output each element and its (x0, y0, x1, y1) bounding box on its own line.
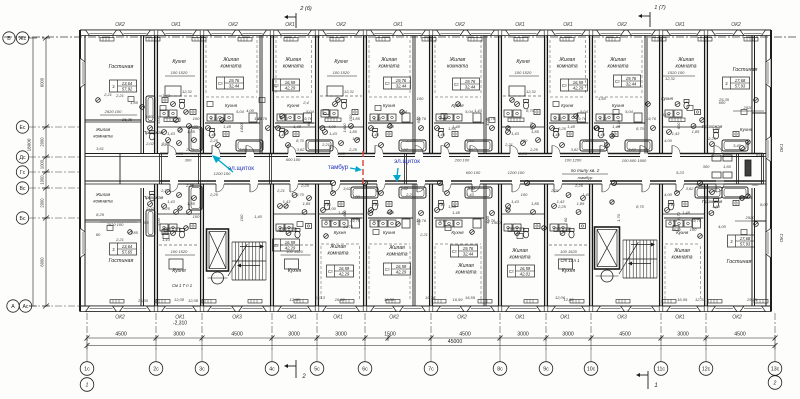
wall pier (704, 30, 708, 36)
svg-text:4500: 4500 (459, 332, 471, 338)
landing circle (601, 270, 613, 282)
corridor wall symbols (330, 180, 335, 185)
room area box (110, 243, 137, 255)
svg-text:1,70: 1,70 (616, 119, 621, 128)
wall axis x=317 (315, 36, 317, 154)
window (552, 306, 586, 312)
svg-text:2,21: 2,21 (103, 92, 112, 97)
svg-text:16,59: 16,59 (677, 297, 688, 302)
svg-text:25,35: 25,35 (718, 97, 730, 102)
left dim line 18000 (32, 38, 34, 306)
svg-text:1,43: 1,43 (466, 138, 475, 143)
svg-text:3,62: 3,62 (400, 147, 409, 152)
svg-text:комната: комната (447, 64, 468, 70)
svg-text:Жилая: Жилая (673, 248, 690, 254)
svg-text:16,59: 16,59 (285, 80, 296, 85)
room area box (217, 77, 244, 89)
wall axis x=661 (659, 36, 661, 154)
svg-text:32,44: 32,44 (229, 84, 240, 89)
svg-text:5с: 5с (314, 367, 320, 373)
svg-text:1200 100: 1200 100 (508, 170, 525, 175)
svg-text:6,70: 6,70 (439, 116, 448, 121)
svg-text:11с: 11с (657, 367, 665, 373)
corner apt right fixtures (722, 140, 748, 151)
svg-text:300: 300 (703, 164, 710, 169)
bottom axis circles (86, 346, 88, 363)
svg-text:300: 300 (185, 158, 192, 163)
svg-text:12,08: 12,08 (563, 297, 574, 302)
svg-text:600: 600 (416, 218, 421, 225)
svg-text:4500: 4500 (734, 332, 746, 338)
svg-text:Прихожая: Прихожая (143, 195, 164, 200)
svg-text:ОК1: ОК1 (779, 143, 784, 152)
svg-text:Гостиная: Гостиная (733, 67, 758, 73)
wall axis x=431 (429, 36, 431, 154)
svg-text:25,35: 25,35 (746, 297, 758, 302)
svg-text:5,04: 5,04 (465, 109, 474, 114)
red dashed line (362, 151, 364, 186)
room area box (723, 77, 750, 89)
svg-text:6,70: 6,70 (373, 116, 382, 121)
window (239, 30, 267, 36)
svg-text:6с: 6с (362, 367, 368, 373)
room area box (273, 239, 300, 251)
svg-text:42,29: 42,29 (339, 272, 350, 277)
svg-text:комната: комната (221, 64, 242, 70)
svg-text:8с: 8с (497, 367, 503, 373)
wall pier (704, 306, 708, 312)
outer wall right (770, 30, 772, 312)
room area box (327, 265, 354, 277)
svg-text:2,83: 2,83 (518, 151, 528, 156)
svg-text:16,59: 16,59 (285, 240, 296, 245)
svg-text:2,25: 2,25 (161, 206, 171, 211)
svg-text:комната: комната (387, 252, 408, 258)
svg-text:ОК2: ОК2 (732, 315, 742, 321)
partition wall (483, 184, 485, 306)
stair treads (232, 241, 266, 243)
svg-text:4,00: 4,00 (485, 117, 490, 126)
window (86, 306, 117, 312)
room area box (110, 80, 137, 92)
wall axis x=156 (154, 36, 156, 154)
window (162, 306, 197, 312)
corridor bottom wall (160, 180, 170, 182)
hall partitions lower (158, 213, 200, 215)
svg-text:100 1520: 100 1520 (560, 249, 577, 254)
window (120, 30, 151, 36)
svg-text:Ст: Ст (218, 81, 223, 86)
svg-text:Прихожая: Прихожая (143, 130, 164, 135)
svg-text:100: 100 (417, 96, 424, 101)
svg-text:Кухня: Кухня (516, 59, 530, 65)
svg-text:3000: 3000 (288, 332, 300, 338)
svg-text:2,21: 2,21 (405, 138, 414, 143)
svg-text:12,31: 12,31 (182, 89, 192, 94)
wall pier (154, 306, 158, 312)
corner apt left fixtures (146, 96, 155, 122)
svg-text:17,68: 17,68 (735, 78, 746, 83)
partition wall (259, 36, 261, 154)
svg-text:2,21: 2,21 (550, 188, 559, 193)
svg-text:3,62: 3,62 (468, 147, 477, 152)
svg-text:5,04: 5,04 (306, 109, 315, 114)
svg-text:1,85: 1,85 (531, 201, 540, 206)
svg-text:1,43: 1,43 (167, 131, 176, 136)
svg-text:3,62: 3,62 (571, 147, 580, 152)
corner apt left walls (140, 36, 142, 154)
wall pier (498, 30, 502, 36)
svg-text:12,33: 12,33 (695, 297, 706, 302)
svg-text:1,40: 1,40 (582, 138, 591, 143)
svg-text:комната: комната (283, 64, 304, 70)
wall axis x=591 (589, 36, 591, 154)
svg-text:19,76: 19,76 (626, 76, 637, 81)
stair treads (623, 239, 657, 241)
svg-text:Кухня: Кухня (287, 103, 300, 108)
corridor stub walls (159, 154, 161, 185)
svg-text:ОК1: ОК1 (779, 233, 784, 242)
wall pier (544, 306, 548, 312)
svg-text:100 600 1900: 100 600 1900 (622, 158, 647, 163)
svg-text:8,29: 8,29 (96, 212, 105, 217)
svg-text:2,25: 2,25 (209, 138, 219, 143)
wall pier (429, 30, 433, 36)
svg-text:Гс: Гс (20, 170, 26, 176)
svg-text:6,70: 6,70 (373, 218, 382, 223)
svg-text:12,06: 12,06 (555, 295, 566, 300)
svg-text:1520: 1520 (672, 227, 682, 232)
svg-text:Б: Б (7, 36, 11, 42)
svg-text:3000: 3000 (173, 332, 185, 338)
svg-text:Жилая: Жилая (558, 57, 575, 63)
svg-text:3,00: 3,00 (156, 217, 161, 226)
svg-text:4,00: 4,00 (664, 192, 673, 197)
svg-text:1,43: 1,43 (511, 131, 520, 136)
svg-text:1,43: 1,43 (283, 199, 292, 204)
svg-text:3,61: 3,61 (96, 146, 104, 151)
room area box (453, 78, 480, 90)
side window (766, 58, 771, 88)
svg-text:12,08: 12,08 (188, 298, 199, 303)
svg-text:ОК1: ОК1 (333, 315, 343, 321)
svg-text:-2,310: -2,310 (173, 321, 187, 327)
svg-text:100 1200: 100 1200 (565, 158, 582, 163)
window (712, 30, 738, 36)
svg-text:16,59: 16,59 (573, 80, 584, 85)
side window (80, 58, 85, 88)
svg-text:1,40: 1,40 (437, 132, 446, 137)
svg-text:ОК1: ОК1 (563, 22, 573, 28)
svg-text:57,93: 57,93 (740, 242, 751, 247)
svg-text:2,25: 2,25 (185, 147, 195, 152)
svg-text:тамбур: тамбур (328, 164, 349, 171)
window (278, 306, 312, 312)
svg-text:2,25: 2,25 (707, 188, 717, 193)
svg-text:3с: 3с (199, 367, 205, 373)
svg-text:1,85: 1,85 (130, 100, 139, 105)
svg-text:4,00: 4,00 (328, 124, 337, 129)
svg-text:2,25: 2,25 (557, 204, 567, 209)
svg-text:18000: 18000 (27, 138, 32, 151)
svg-text:комната: комната (510, 255, 531, 261)
room area box (508, 265, 535, 277)
svg-text:1,85: 1,85 (577, 201, 586, 206)
svg-text:42,29: 42,29 (285, 86, 296, 91)
bottom dims row2 45000 (87, 345, 775, 347)
svg-text:4,00: 4,00 (328, 206, 337, 211)
svg-text:Жилая: Жилая (95, 192, 111, 197)
svg-text:100: 100 (239, 214, 244, 221)
outer wall left (79, 30, 81, 312)
svg-text:16,59: 16,59 (520, 266, 531, 271)
svg-text:2,02: 2,02 (145, 141, 155, 146)
svg-text:5,04: 5,04 (399, 109, 408, 114)
svg-text:эл.щиток: эл.щиток (394, 158, 420, 165)
svg-text:12,13: 12,13 (315, 295, 326, 300)
side window (766, 136, 771, 162)
svg-text:ОК1: ОК1 (560, 315, 570, 321)
window (400, 306, 426, 312)
svg-text:16,59: 16,59 (384, 297, 395, 302)
svg-text:2,21: 2,21 (419, 232, 428, 237)
axis circle 2 (768, 376, 782, 390)
wall pier (589, 30, 593, 36)
lower module 661-706 (665, 243, 700, 245)
svg-text:2000: 2000 (40, 198, 45, 208)
svg-text:1,48: 1,48 (682, 210, 691, 215)
svg-text:4,00: 4,00 (246, 108, 255, 113)
window (597, 306, 625, 312)
svg-text:Жилая: Жилая (222, 57, 239, 63)
svg-text:7с: 7с (428, 367, 434, 373)
window (400, 30, 426, 36)
partition wall (412, 184, 414, 306)
svg-text:1с: 1с (84, 367, 90, 373)
svg-text:6,70: 6,70 (325, 218, 334, 223)
svg-text:300: 300 (752, 182, 759, 187)
svg-text:Жилая: Жилая (609, 57, 626, 63)
svg-text:5,23: 5,23 (676, 170, 685, 175)
wall pier (659, 30, 663, 36)
svg-text:45000: 45000 (448, 339, 463, 345)
window (437, 30, 465, 36)
svg-text:3,62: 3,62 (239, 147, 248, 152)
svg-text:2,21: 2,21 (321, 142, 330, 147)
svg-text:1400: 1400 (342, 123, 347, 133)
left dim line detail (45, 38, 47, 306)
svg-text:6,70: 6,70 (280, 116, 289, 121)
svg-text:1,70: 1,70 (616, 213, 621, 222)
svg-text:12,08: 12,08 (174, 297, 185, 302)
bathtub vertical upper (189, 127, 202, 151)
svg-text:57,65: 57,65 (122, 250, 133, 255)
svg-text:16,59: 16,59 (335, 297, 346, 302)
svg-text:комната: комната (557, 64, 578, 70)
svg-text:25,35: 25,35 (121, 117, 133, 122)
svg-text:2,25: 2,25 (348, 147, 358, 152)
svg-text:Ст: Ст (509, 269, 514, 274)
bottom dims row1 (87, 337, 775, 339)
svg-text:600: 600 (676, 122, 681, 129)
svg-text:1,60: 1,60 (352, 194, 361, 199)
svg-text:ОК2: ОК2 (457, 315, 467, 321)
svg-text:3,62: 3,62 (400, 186, 409, 191)
svg-text:тамбур: тамбур (578, 175, 593, 180)
partition wall (412, 36, 414, 154)
svg-text:100: 100 (690, 227, 697, 232)
svg-text:комната: комната (676, 64, 697, 70)
window (371, 306, 397, 312)
svg-text:2000: 2000 (40, 137, 45, 147)
svg-text:Кухня: Кухня (383, 103, 396, 108)
svg-text:6000: 6000 (40, 77, 45, 87)
window (278, 30, 312, 36)
svg-text:1: 1 (654, 383, 657, 389)
svg-text:1,48: 1,48 (452, 210, 461, 215)
svg-text:ОК1: ОК1 (515, 315, 525, 321)
svg-text:2,25: 2,25 (185, 183, 195, 188)
svg-text:2,25: 2,25 (300, 183, 310, 188)
svg-text:2,21: 2,21 (276, 188, 285, 193)
svg-text:16,59: 16,59 (452, 297, 463, 302)
room area box (273, 79, 300, 91)
svg-text:1,40: 1,40 (552, 132, 561, 137)
room area box (614, 75, 641, 87)
svg-text:ОК1: ОК1 (171, 22, 181, 28)
svg-text:60: 60 (306, 121, 311, 126)
wall pier (315, 306, 319, 312)
window (667, 30, 701, 36)
svg-text:ОК2: ОК2 (731, 22, 741, 28)
svg-text:42,29: 42,29 (285, 246, 296, 251)
svg-text:3,40: 3,40 (733, 143, 742, 148)
svg-text:Кухня: Кухня (225, 103, 238, 108)
svg-text:Вс: Вс (19, 186, 25, 192)
svg-text:2,83: 2,83 (336, 151, 346, 156)
wall axis x=272 (270, 36, 272, 154)
svg-text:1400: 1400 (342, 210, 347, 220)
svg-text:42,29: 42,29 (573, 86, 584, 91)
svg-text:ОК3: ОК3 (617, 315, 627, 321)
svg-text:19,76: 19,76 (576, 116, 587, 121)
svg-text:32,44: 32,44 (396, 84, 407, 89)
svg-text:1,85: 1,85 (349, 129, 358, 134)
window (506, 30, 541, 36)
svg-text:1: 1 (86, 383, 89, 389)
side window (80, 228, 85, 258)
svg-text:1,43: 1,43 (162, 93, 171, 98)
svg-text:Гостиная: Гостиная (109, 258, 134, 264)
wall pier (544, 30, 548, 36)
svg-text:Жилая: Жилая (457, 263, 474, 269)
svg-text:32,44: 32,44 (463, 252, 474, 257)
svg-text:2920 100: 2920 100 (104, 109, 122, 114)
window (597, 30, 625, 36)
svg-text:5,04: 5,04 (625, 109, 634, 114)
svg-text:Ст 11 п 1: Ст 11 п 1 (561, 258, 580, 263)
svg-text:Ст: Ст (452, 249, 457, 254)
svg-text:Кухня: Кухня (451, 103, 464, 108)
svg-text:1400: 1400 (146, 114, 156, 119)
svg-text:2,4: 2,4 (302, 100, 309, 105)
wall pier (498, 306, 502, 312)
svg-text:4,00: 4,00 (664, 138, 673, 143)
section marker 1 bottom (647, 371, 649, 389)
svg-text:600 100: 600 100 (286, 157, 301, 162)
svg-text:1,60: 1,60 (712, 204, 721, 209)
svg-text:5,04: 5,04 (580, 109, 589, 114)
svg-text:1,60: 1,60 (712, 126, 721, 131)
svg-text:2,25: 2,25 (574, 183, 584, 188)
svg-text:ОК2: ОК2 (115, 22, 125, 28)
svg-text:1,85: 1,85 (448, 126, 457, 131)
svg-text:6000: 6000 (40, 257, 45, 267)
svg-text:19,76: 19,76 (396, 78, 407, 83)
window (628, 306, 656, 312)
svg-text:1,85: 1,85 (692, 129, 701, 134)
radiators under windows (100, 38, 114, 42)
svg-text:2,21: 2,21 (115, 237, 124, 242)
window (120, 306, 151, 312)
svg-text:8,70: 8,70 (296, 138, 305, 143)
wall axis x=202 (200, 36, 202, 154)
svg-text:12,31: 12,31 (526, 89, 536, 94)
svg-text:ОК2: ОК2 (336, 22, 346, 28)
svg-text:ОК2: ОК2 (617, 22, 627, 28)
svg-text:ОК2: ОК2 (455, 22, 465, 28)
svg-text:8,70: 8,70 (296, 192, 305, 197)
bathtub vertical lower (189, 186, 202, 210)
svg-text:3,62: 3,62 (686, 186, 695, 191)
svg-text:3,62: 3,62 (297, 147, 306, 152)
svg-text:19,76: 19,76 (646, 116, 657, 121)
room area box (384, 77, 411, 89)
window (467, 306, 495, 312)
svg-text:3000: 3000 (562, 332, 574, 338)
svg-text:1,48: 1,48 (293, 124, 302, 129)
svg-text:1,40: 1,40 (597, 132, 606, 137)
room area box (451, 245, 478, 257)
svg-text:Ст: Ст (328, 269, 333, 274)
axis circle 1 (80, 378, 94, 392)
svg-text:19,76: 19,76 (463, 246, 474, 251)
svg-text:100: 100 (348, 114, 353, 121)
svg-text:1,60: 1,60 (352, 136, 361, 141)
svg-text:2,25: 2,25 (707, 136, 717, 141)
svg-text:1000: 1000 (40, 175, 45, 185)
lower module 317-365 (321, 243, 359, 245)
svg-text:2,83: 2,83 (174, 151, 184, 156)
svg-text:ОК2: ОК2 (228, 22, 238, 28)
svg-text:4500: 4500 (115, 332, 127, 338)
svg-text:2,25: 2,25 (209, 192, 219, 197)
window (208, 30, 236, 36)
svg-text:2,25: 2,25 (161, 141, 171, 146)
svg-text:19,76: 19,76 (691, 218, 702, 223)
svg-text:1,40: 1,40 (254, 116, 263, 121)
partition wall (483, 36, 485, 154)
svg-text:57,92: 57,92 (122, 87, 133, 92)
svg-text:1520 100: 1520 100 (668, 70, 685, 75)
svg-text:8,70: 8,70 (676, 211, 681, 220)
svg-text:1,43: 1,43 (466, 192, 475, 197)
svg-text:1,60: 1,60 (723, 164, 732, 169)
svg-text:8,02: 8,02 (760, 202, 769, 207)
svg-text:ОК2: ОК2 (115, 315, 125, 321)
svg-text:1400: 1400 (239, 123, 244, 133)
svg-text:100 1520: 100 1520 (515, 70, 532, 75)
